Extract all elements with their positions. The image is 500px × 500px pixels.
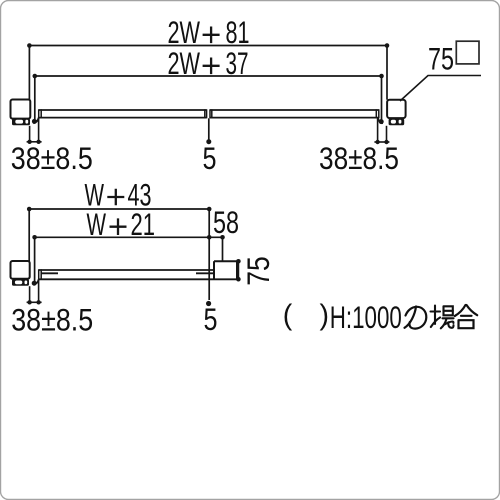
dimension line 2W+37	[35, 76, 382, 120]
kanji NO	[405, 307, 427, 329]
dimension line 2W+81	[29, 46, 387, 100]
svg-text:38±8.5: 38±8.5	[11, 302, 93, 338]
arrowheads 2W+37	[33, 74, 384, 79]
clamp bottom-left	[12, 279, 29, 286]
dim 38±8.5 top-right	[374, 118, 389, 142]
kanji GOU	[455, 305, 477, 328]
svg-text:38±8.5: 38±8.5	[319, 140, 399, 176]
svg-text:75: 75	[240, 256, 276, 286]
rail top drawing right piece	[210, 110, 379, 118]
svg-text:75: 75	[428, 41, 454, 77]
hook detail top-left	[33, 118, 38, 124]
rail end ticks right	[210, 109, 379, 118]
dim 38±8.5 bottom-left	[27, 280, 42, 302]
svg-text:58: 58	[213, 204, 239, 240]
rail end ticks left	[39, 109, 207, 118]
clamp top-left	[12, 119, 30, 126]
bracket bottom-right	[214, 261, 239, 279]
dim 58 vertical	[208, 209, 210, 300]
kanji BA	[431, 306, 454, 329]
hook detail top-right	[378, 118, 383, 124]
dim 5 top center leader	[208, 118, 210, 140]
clamp top-right	[389, 119, 405, 126]
svg-text:(: (	[283, 300, 293, 332]
arrowheads 2W+81	[27, 43, 389, 48]
dim 38±8.5 top-left	[27, 118, 42, 142]
rail top drawing left piece	[39, 110, 207, 118]
svg-text:): )	[320, 300, 330, 332]
leader 75-square	[400, 76, 481, 102]
svg-text:5: 5	[203, 140, 217, 176]
bracket top-left	[11, 100, 31, 119]
dimension line W+21	[35, 237, 223, 281]
svg-text:38±8.5: 38±8.5	[11, 140, 93, 176]
svg-text:H:1000: H:1000	[330, 299, 402, 335]
dim 5 bottom leader dot	[206, 301, 211, 306]
hook detail bottom-left	[33, 279, 38, 284]
bracket bottom-left	[11, 261, 30, 279]
rail end ticks bottom-left	[39, 269, 42, 280]
svg-text:5: 5	[204, 301, 218, 337]
rail bottom drawing	[39, 270, 239, 279]
bracket top-right	[387, 100, 406, 118]
dim 75 vertical	[237, 261, 239, 279]
square symbol	[456, 41, 479, 64]
dimension line W+43	[29, 209, 209, 261]
